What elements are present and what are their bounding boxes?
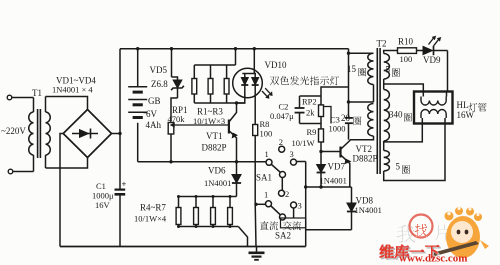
fluorescent lamp HL bbox=[414, 92, 453, 124]
svg-text:VT1: VT1 bbox=[206, 131, 223, 141]
node R1R3 bottom to VT1 collector bbox=[235, 101, 238, 104]
svg-text:100: 100 bbox=[400, 54, 413, 64]
wire bridge minus to bottom rail bbox=[60, 134, 63, 247]
svg-text:1: 1 bbox=[265, 149, 269, 159]
svg-text:2k: 2k bbox=[306, 108, 315, 118]
potentiometer RP2 bbox=[302, 96, 331, 124]
watermark mascot bbox=[432, 207, 489, 258]
resistor R8 bbox=[253, 119, 273, 204]
main positive vertical wire bbox=[119, 49, 121, 189]
wire secondary bottom to bridge bbox=[46, 158, 88, 169]
label 1N4001 x4 bbox=[52, 85, 93, 95]
svg-text:4Ah: 4Ah bbox=[146, 120, 162, 130]
label 5 turns top bbox=[386, 65, 401, 78]
svg-text:1000: 1000 bbox=[329, 124, 346, 134]
T2 secondary 340 turns bbox=[384, 84, 423, 142]
svg-text:10/1W: 10/1W bbox=[292, 138, 315, 148]
svg-text:D882P: D882P bbox=[353, 154, 378, 164]
bridge rectifier VD1-VD4 bbox=[63, 110, 111, 158]
svg-text:20: 20 bbox=[341, 113, 351, 123]
label 10/1W x3 bbox=[193, 116, 225, 126]
transformer T2 bbox=[377, 39, 387, 175]
svg-text:Z6.8: Z6.8 bbox=[151, 79, 168, 89]
capacitor C1 bbox=[92, 179, 127, 247]
svg-text:1N4001: 1N4001 bbox=[355, 205, 382, 215]
svg-text:T1: T1 bbox=[32, 88, 42, 98]
svg-text:6V: 6V bbox=[146, 109, 158, 119]
center vertical wire to ground bbox=[254, 204, 257, 247]
switch SA1 bbox=[256, 137, 297, 190]
watermark weiku text bbox=[380, 244, 442, 260]
svg-text:16V: 16V bbox=[95, 200, 111, 210]
svg-text:340: 340 bbox=[389, 110, 403, 120]
diode VD7 bbox=[317, 152, 347, 188]
svg-text:VD10: VD10 bbox=[265, 60, 287, 70]
wire VD9 to lamp bbox=[447, 51, 449, 92]
potentiometer RP1 bbox=[168, 98, 229, 162]
svg-text:3: 3 bbox=[298, 201, 302, 211]
svg-text:1N4001: 1N4001 bbox=[204, 178, 231, 188]
svg-text:1N4001 × 4: 1N4001 × 4 bbox=[52, 85, 93, 95]
label 20 turns bbox=[341, 113, 362, 125]
T2 secondary 5 turns top bbox=[384, 51, 424, 92]
zener diode VD5 bbox=[150, 49, 184, 98]
T2 filament 5 turns bottom bbox=[384, 124, 445, 181]
svg-text:10/1W×3: 10/1W×3 bbox=[193, 116, 225, 126]
label ~220V bbox=[1, 126, 26, 136]
svg-text:~220V: ~220V bbox=[1, 126, 26, 136]
label 15 turns bbox=[347, 64, 367, 77]
svg-text:RP2: RP2 bbox=[302, 97, 317, 107]
watermark red seal bbox=[410, 215, 433, 238]
svg-text:GB: GB bbox=[148, 96, 161, 106]
label AC bbox=[281, 218, 306, 230]
AC input terminal top bbox=[7, 95, 33, 100]
emitter rail bbox=[306, 185, 352, 188]
svg-text:3: 3 bbox=[290, 149, 294, 159]
svg-text:5: 5 bbox=[396, 162, 401, 172]
svg-text:T2: T2 bbox=[377, 39, 387, 49]
wire AC to VD8 bottom bbox=[306, 229, 352, 231]
label R4~R7 bbox=[140, 203, 166, 213]
svg-text:2: 2 bbox=[279, 137, 283, 147]
svg-text:R10: R10 bbox=[398, 37, 414, 47]
ground symbol bbox=[249, 247, 265, 260]
svg-text:VD8: VD8 bbox=[356, 196, 374, 206]
svg-text:15: 15 bbox=[347, 64, 357, 74]
AC input terminal bottom bbox=[8, 169, 33, 174]
svg-text:+: + bbox=[122, 179, 127, 189]
switch SA2 bbox=[264, 189, 302, 241]
label DC bbox=[260, 221, 278, 230]
svg-text:R1~R3: R1~R3 bbox=[197, 107, 223, 117]
wire SA2 common to center line bbox=[254, 203, 265, 206]
wire bridge plus to C1 node bbox=[112, 132, 122, 135]
transistor VT2 D882P bbox=[321, 140, 378, 187]
label two-color LED indicator bbox=[270, 76, 339, 86]
T2 primary 15 turns bbox=[349, 53, 374, 102]
svg-text:470k: 470k bbox=[168, 114, 186, 124]
svg-text:VT2: VT2 bbox=[356, 144, 373, 154]
node battery top bbox=[136, 47, 139, 50]
svg-text:0.047μ: 0.047μ bbox=[270, 111, 294, 121]
node LED feed bbox=[253, 47, 256, 50]
battery GB bbox=[128, 49, 161, 162]
svg-text:R8: R8 bbox=[260, 119, 270, 129]
LED VD9 bbox=[417, 36, 448, 65]
svg-text:16W: 16W bbox=[457, 110, 475, 120]
svg-text:1000μ: 1000μ bbox=[92, 191, 114, 201]
svg-text:1: 1 bbox=[264, 190, 268, 200]
svg-text:www.dzsc.com: www.dzsc.com bbox=[399, 253, 467, 265]
resistor R10 bbox=[398, 37, 417, 65]
collector feed line bbox=[347, 49, 350, 114]
wire 5t to R10 bbox=[387, 50, 398, 52]
label 5 turns bottom bbox=[396, 162, 411, 175]
svg-text:D882P: D882P bbox=[202, 143, 227, 153]
resistor R9 bbox=[292, 124, 324, 152]
wire SA1 contact3 to AC line bbox=[297, 162, 308, 247]
capacitor C3 bbox=[329, 114, 353, 140]
label 10/1W x4 bbox=[134, 214, 167, 224]
label VD1~VD4 bbox=[56, 76, 96, 86]
label VD10 bbox=[265, 60, 287, 70]
transistor VT1 D882P bbox=[202, 103, 237, 162]
wire RP2 top to collector line bbox=[321, 87, 349, 96]
diode VD6 bbox=[204, 162, 241, 197]
node zener top bbox=[170, 47, 173, 50]
two-color LED VD10 bbox=[233, 49, 272, 125]
diode VD8 bbox=[347, 187, 382, 230]
node R1-R3 feed bbox=[234, 47, 237, 50]
svg-text:5: 5 bbox=[386, 65, 391, 75]
bottom ground rail bbox=[60, 246, 306, 248]
transformer T1 bbox=[29, 88, 50, 172]
svg-text:VD6: VD6 bbox=[208, 166, 226, 176]
wire secondary top to bridge bbox=[46, 97, 88, 110]
T2 feedback 20 turns bbox=[350, 104, 374, 140]
svg-text:VD5: VD5 bbox=[150, 65, 168, 75]
capacitor C2 bbox=[270, 96, 321, 124]
svg-text:VD9: VD9 bbox=[423, 55, 441, 65]
svg-text:C2: C2 bbox=[279, 102, 289, 112]
svg-text:VD7: VD7 bbox=[328, 162, 346, 172]
label 340 turns bbox=[389, 110, 412, 122]
wire battery bottom rail y162 bbox=[138, 160, 266, 163]
svg-text:HL: HL bbox=[457, 100, 469, 110]
svg-text:2: 2 bbox=[285, 189, 289, 199]
label R1~R3 bbox=[197, 107, 223, 117]
svg-text:10/1W×4: 10/1W×4 bbox=[134, 214, 167, 224]
resistors R4-R7 bbox=[176, 195, 247, 247]
svg-text:R9: R9 bbox=[307, 127, 317, 137]
node VT2 base bbox=[319, 150, 322, 153]
svg-text:R4~R7: R4~R7 bbox=[140, 203, 166, 213]
watermark find-IC text bbox=[397, 224, 451, 243]
resistors R1-R3 bbox=[192, 49, 245, 103]
svg-text:C1: C1 bbox=[96, 181, 106, 191]
top +6V rail bbox=[120, 48, 349, 50]
watermark url bbox=[399, 253, 467, 265]
label HL lamp 16W bbox=[457, 100, 487, 120]
svg-text:100: 100 bbox=[260, 129, 273, 139]
svg-text:1N4001: 1N4001 bbox=[320, 176, 347, 186]
svg-text:SA2: SA2 bbox=[275, 231, 291, 241]
svg-text:SA1: SA1 bbox=[256, 173, 272, 183]
